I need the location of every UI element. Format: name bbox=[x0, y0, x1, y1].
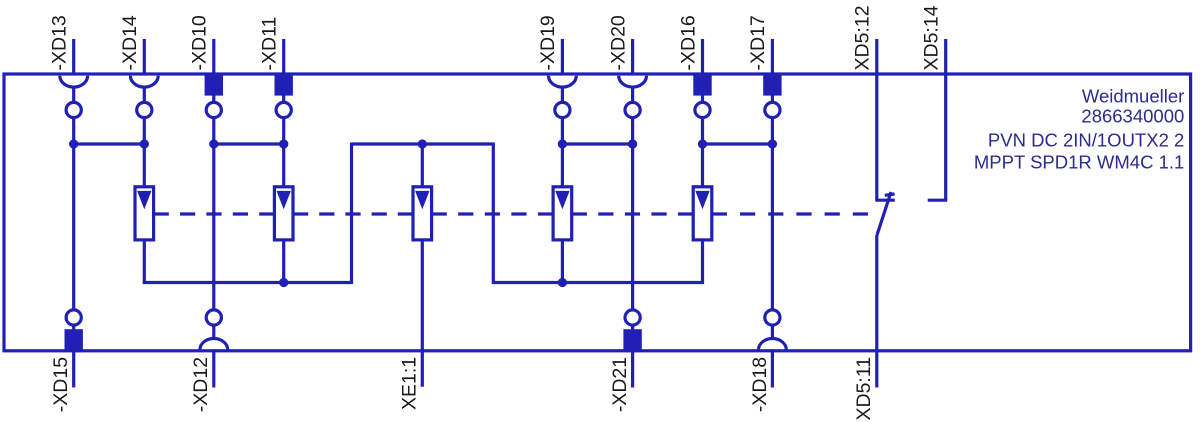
surge arrester F5 bbox=[693, 187, 712, 240]
svg-text:MPPT SPD1R WM4C 1.1: MPPT SPD1R WM4C 1.1 bbox=[974, 152, 1184, 173]
terminal -XD18 bbox=[759, 310, 787, 388]
wire mechanical linkage dash 1 bbox=[154, 212, 275, 215]
wire lower bar left bbox=[143, 281, 352, 284]
wire SPD F5 to lower bar bbox=[701, 240, 704, 284]
terminal -XD20 bbox=[619, 39, 647, 118]
terminal -XD21 bbox=[625, 310, 640, 388]
svg-text:-XD13: -XD13 bbox=[49, 15, 71, 70]
svg-text:-XD17: -XD17 bbox=[747, 15, 769, 70]
junction J1 bbox=[71, 141, 77, 147]
terminal -XD19 bbox=[549, 39, 577, 118]
label -XD11 bbox=[259, 17, 281, 71]
label -XD20 bbox=[607, 15, 629, 70]
label -XD19 bbox=[537, 15, 559, 70]
label -XD14 bbox=[119, 15, 141, 70]
surge arrester F3 bbox=[413, 187, 432, 240]
wire -XD11 to SPD F2 bbox=[282, 118, 285, 187]
terminal -XD10 bbox=[206, 39, 221, 118]
contact XD5:12 tick bbox=[875, 199, 895, 202]
wire -XD19 to SPD F4 bbox=[561, 118, 564, 187]
junction J9 bbox=[769, 141, 775, 147]
wire -XD13 to -XD15 bbox=[72, 118, 75, 309]
junction J11 bbox=[559, 279, 565, 285]
label -XD12 bbox=[190, 357, 212, 412]
value label line 4: MPPT SPD1R WM4C 1.1 bbox=[974, 152, 1184, 173]
svg-text:XD5:14: XD5:14 bbox=[921, 5, 943, 70]
label -XD21 bbox=[609, 357, 631, 412]
junction J2 bbox=[141, 141, 147, 147]
wire mechanical linkage dash 5 bbox=[712, 212, 868, 215]
wire earth right drop bbox=[492, 143, 495, 285]
svg-text:-XD19: -XD19 bbox=[537, 15, 559, 70]
label -XD15 bbox=[50, 357, 72, 412]
svg-text:-XD12: -XD12 bbox=[190, 357, 212, 412]
svg-text:-XD20: -XD20 bbox=[607, 15, 629, 70]
wire -XD10 to -XD12 bbox=[212, 118, 215, 309]
label -XD10 bbox=[189, 15, 211, 70]
wire SPD F1 to lower bar bbox=[143, 240, 146, 284]
wire -XD19 to -XD20 junction bar bbox=[562, 142, 632, 145]
surge arrester F2 bbox=[274, 187, 293, 240]
wire SPD F4 to lower bar bbox=[561, 240, 564, 283]
svg-text:-XD11: -XD11 bbox=[259, 17, 281, 71]
terminal -XD13 bbox=[60, 39, 88, 118]
junction J6 bbox=[559, 141, 565, 147]
surge arrester F1 bbox=[135, 187, 154, 240]
wire mechanical linkage dash 2 bbox=[293, 212, 413, 215]
wire -XD13 to -XD14 junction bar bbox=[74, 142, 145, 145]
wire XD5:11 riser bbox=[875, 235, 878, 388]
junction J3 bbox=[211, 141, 217, 147]
switch blade hook bbox=[885, 194, 895, 195]
wire XD5:14 drop bbox=[944, 39, 947, 200]
wire SPD F3 to XE1:1 bbox=[421, 240, 424, 387]
wire -XD16 to SPD F5 bbox=[701, 118, 704, 187]
label -XD18 bbox=[749, 357, 771, 412]
terminal -XD11 bbox=[276, 39, 291, 118]
wire SPD F2 to lower bar bbox=[282, 240, 285, 283]
wire node A to SPD F3 bbox=[421, 144, 424, 187]
terminal -XD17 bbox=[765, 39, 780, 118]
value label line 1: Weidmueller bbox=[1082, 85, 1184, 106]
svg-text:2866340000: 2866340000 bbox=[1081, 106, 1184, 127]
svg-text:XE1:1: XE1:1 bbox=[399, 357, 421, 410]
svg-text:XD5:12: XD5:12 bbox=[852, 5, 874, 70]
svg-text:Weidmueller: Weidmueller bbox=[1082, 85, 1184, 106]
svg-text:-XD21: -XD21 bbox=[609, 357, 631, 412]
terminal -XD14 bbox=[130, 39, 158, 118]
label -XD13 bbox=[49, 15, 71, 70]
wire mechanical linkage dash 3 bbox=[432, 212, 553, 215]
wire -XD14 to SPD F1 bbox=[143, 118, 146, 187]
label -XD17 bbox=[747, 15, 769, 70]
label XD5:11 bbox=[853, 357, 875, 421]
junction J4 bbox=[281, 141, 287, 147]
wire earth top bar bbox=[352, 142, 494, 145]
wire mechanical linkage dash 4 bbox=[572, 212, 694, 215]
label XE1:1 bbox=[399, 357, 421, 410]
value label line 3: PVN DC 2IN/1OUTX2 2 bbox=[988, 129, 1184, 150]
svg-text:-XD16: -XD16 bbox=[677, 15, 699, 70]
junction J7 bbox=[630, 141, 636, 147]
label -XD16 bbox=[677, 15, 699, 70]
svg-text:-XD15: -XD15 bbox=[50, 357, 72, 412]
junction J8 bbox=[699, 141, 705, 147]
wire -XD10 to -XD11 junction bar bbox=[214, 142, 284, 145]
enclosure frame bbox=[4, 74, 1191, 351]
wire XD5:12 drop bbox=[875, 39, 878, 200]
label XD5:12 bbox=[852, 5, 874, 70]
wire -XD17 to -XD18 bbox=[771, 118, 774, 309]
terminal -XD16 bbox=[695, 39, 710, 118]
terminal -XD12 bbox=[200, 310, 228, 388]
wire lower bar right bbox=[493, 281, 704, 284]
value label line 2: 2866340000 bbox=[1081, 106, 1184, 127]
svg-text:-XD10: -XD10 bbox=[189, 15, 211, 70]
surge arrester F4 bbox=[553, 187, 572, 240]
wire -XD16 to -XD17 junction bar bbox=[703, 142, 773, 145]
svg-text:-XD18: -XD18 bbox=[749, 357, 771, 412]
terminal -XD15 bbox=[66, 310, 81, 388]
junction J10 bbox=[281, 279, 287, 285]
switch blade S1 bbox=[877, 192, 891, 235]
svg-text:PVN DC 2IN/1OUTX2 2: PVN DC 2IN/1OUTX2 2 bbox=[988, 129, 1184, 150]
svg-text:-XD14: -XD14 bbox=[119, 15, 141, 70]
wire earth left drop bbox=[350, 143, 353, 285]
contact XD5:14 tick bbox=[928, 199, 948, 202]
junction J5 bbox=[419, 141, 425, 147]
wire -XD20 to -XD21 bbox=[631, 118, 634, 309]
svg-text:XD5:11: XD5:11 bbox=[853, 357, 875, 421]
label XD5:14 bbox=[921, 5, 943, 70]
